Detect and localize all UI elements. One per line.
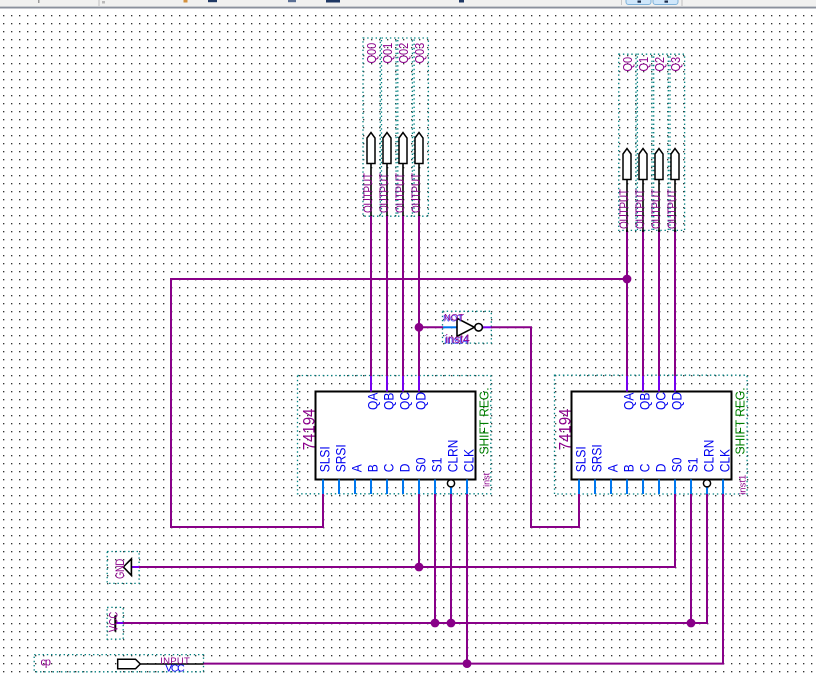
svg-text:QB: QB	[381, 393, 397, 410]
wire U1 SRSI stub	[338, 480, 340, 495]
wire U1 B stub	[370, 480, 372, 495]
svg-text:inst: inst	[482, 472, 492, 487]
svg-text:QB: QB	[637, 393, 653, 410]
wire VCC net	[123, 494, 707, 623]
wire U1.CLK to CLK net	[466, 494, 468, 664]
svg-text:74194: 74194	[301, 408, 319, 450]
node GND selection box	[107, 552, 139, 584]
node output pin Q2 symbol	[655, 149, 663, 180]
ground GND symbol	[131, 566, 139, 568]
wire U2 A stub	[610, 480, 612, 495]
wire Q02 pin to U1 QC	[402, 216, 404, 376]
wire NOT input selected segment	[443, 326, 457, 328]
node U1 CLRN bubble	[447, 480, 454, 487]
svg-text:NOT: NOT	[444, 313, 464, 324]
svg-text:SRSI: SRSI	[333, 444, 349, 472]
wire U1 QC stub	[402, 376, 404, 392]
node U2 CLRN bubble	[703, 480, 710, 487]
node Q01 output pin selection box	[382, 38, 397, 216]
wire U1 D stub	[402, 480, 404, 495]
svg-text:QA: QA	[365, 392, 381, 410]
svg-text:S1: S1	[685, 458, 701, 473]
wire U2 CLK stub	[722, 480, 724, 495]
node output pin Q0 symbol	[623, 149, 631, 180]
node toolbar	[0, 0, 816, 9]
node NOT selection box	[443, 311, 492, 343]
wire U2.S1 to VCC net	[690, 494, 692, 623]
node junction (451,623)	[447, 619, 456, 628]
node Q00 output pin selection box	[363, 38, 380, 216]
svg-text:S0: S0	[669, 458, 685, 473]
svg-text:OUTPUT: OUTPUT	[395, 173, 408, 213]
wire Q00 pin to U1 QA	[370, 216, 372, 376]
svg-text:OUTPUT: OUTPUT	[651, 189, 664, 229]
svg-text:CLK: CLK	[461, 449, 477, 473]
wire U1.S1 to VCC net	[434, 494, 436, 623]
svg-text:inst1: inst1	[738, 475, 749, 495]
wire U1.S0 to GND net	[418, 494, 420, 567]
wire Q01 pin to U1 QB	[386, 216, 388, 376]
svg-text:OUTPUT: OUTPUT	[411, 173, 424, 213]
svg-text:OUTPUT: OUTPUT	[667, 189, 680, 229]
svg-text:QC: QC	[653, 392, 669, 410]
svg-text:OUTPUT: OUTPUT	[635, 189, 648, 229]
svg-text:S0: S0	[413, 458, 429, 473]
node U2 selection box	[555, 375, 748, 494]
svg-text:SLSI: SLSI	[573, 446, 589, 472]
svg-text:QD: QD	[413, 392, 429, 410]
wire U2 SLSI stub	[578, 480, 580, 495]
wire U1 QD stub	[418, 376, 420, 392]
node junction (467,663.6)	[463, 659, 472, 668]
svg-text:D: D	[653, 464, 669, 473]
wire U1 S0 stub	[418, 480, 420, 495]
svg-text:QC: QC	[397, 392, 413, 410]
node Q03 output pin selection box	[414, 38, 428, 216]
svg-text:QA: QA	[621, 392, 637, 410]
wire U1 SLSI stub	[322, 480, 324, 495]
svg-text:S1: S1	[429, 458, 445, 473]
wire U2 SRSI stub	[594, 480, 596, 495]
wire cp CLK net	[204, 494, 724, 664]
svg-text:CLRN: CLRN	[445, 440, 461, 473]
wire NOT output to U2.SLSI	[491, 327, 579, 527]
node Q3 output pin selection box	[670, 54, 685, 230]
svg-text:D: D	[397, 464, 413, 473]
node Q2 output pin selection box	[654, 54, 669, 230]
wire U1.CLRN to VCC net	[450, 494, 452, 623]
wire U2.QA feedback to U1.SLSI	[171, 279, 627, 527]
svg-text:Q0: Q0	[620, 57, 635, 72]
node U1 74194 shift register body	[316, 392, 476, 480]
node output pin Q02 symbol	[399, 133, 407, 164]
wire U1 QA stub	[370, 376, 372, 392]
wire Q03 pin to U1 QD	[418, 216, 420, 376]
node junction (419,327.3)	[415, 323, 424, 332]
wire U2 D stub	[658, 480, 660, 495]
node output pin Q01 symbol	[383, 133, 391, 164]
svg-text:Q1: Q1	[636, 57, 651, 72]
svg-text:A: A	[349, 464, 365, 472]
power VCC symbol	[115, 622, 123, 624]
wire U1 CLK stub	[466, 480, 468, 495]
node junction (691,623)	[687, 619, 696, 628]
wire Q2 pin to U2 QC	[658, 230, 660, 376]
svg-text:inst4: inst4	[446, 334, 471, 346]
svg-text:C: C	[637, 464, 653, 473]
node output pin Q03 symbol	[415, 133, 423, 164]
svg-text:Q3: Q3	[668, 57, 683, 72]
op-amp NOT gate inst4 triangle	[457, 318, 474, 336]
wire U2 CLRN stub	[706, 488, 708, 495]
wire U2 S1 stub	[690, 480, 692, 495]
svg-text:SRSI: SRSI	[589, 444, 605, 472]
wire U1 S1 stub	[434, 480, 436, 495]
node U2 74194 shift register body	[572, 392, 732, 480]
svg-text:SHIFT REG.: SHIFT REG.	[477, 387, 492, 454]
wire U2 QC stub	[658, 376, 660, 392]
svg-text:VCC: VCC	[108, 611, 121, 632]
wire U1 QB stub	[386, 376, 388, 392]
wire Q1 pin to U2 QB	[642, 230, 644, 376]
node junction (419,567)	[415, 563, 424, 572]
svg-text:GND: GND	[114, 558, 127, 579]
wire Q0 pin to U2 QA	[626, 230, 628, 376]
node cp selection box	[34, 655, 203, 672]
svg-text:Q02: Q02	[396, 43, 411, 64]
svg-text:C: C	[381, 464, 397, 473]
wire U2 B stub	[626, 480, 628, 495]
node Q1 output pin selection box	[637, 54, 652, 230]
node input pin cp symbol	[118, 659, 141, 669]
svg-text:SLSI: SLSI	[317, 446, 333, 472]
wire U1 CLRN stub	[450, 488, 452, 495]
svg-text:Q00: Q00	[364, 43, 379, 64]
svg-text:B: B	[365, 464, 381, 472]
node U1 selection box	[298, 376, 491, 494]
svg-text:cp: cp	[41, 657, 52, 669]
svg-text:Q03: Q03	[412, 43, 427, 64]
svg-text:74194: 74194	[557, 408, 575, 450]
node output pin Q1 symbol	[639, 149, 647, 180]
wire U2 QD stub	[674, 376, 676, 392]
node junction (435,623)	[431, 619, 440, 628]
svg-text:A: A	[605, 464, 621, 472]
node Q0 output pin selection box	[619, 54, 636, 230]
wire U2 C stub	[642, 480, 644, 495]
wire U2 S0 stub	[674, 480, 676, 495]
svg-text:SHIFT REG.: SHIFT REG.	[733, 387, 748, 454]
node junction (627,279)	[623, 275, 632, 284]
svg-text:CLRN: CLRN	[701, 440, 717, 473]
svg-text:OUTPUT: OUTPUT	[379, 173, 392, 213]
wire U2 QB stub	[642, 376, 644, 392]
node NOT bubble	[475, 324, 483, 332]
wire U1 A stub	[354, 480, 356, 495]
node VCC selection box	[107, 607, 123, 639]
wire Q3 pin to U2 QD	[674, 230, 676, 376]
wire QD node to NOT input	[419, 326, 443, 328]
svg-text:Q2: Q2	[652, 57, 667, 72]
svg-text:B: B	[621, 464, 637, 472]
node output pin Q3 symbol	[671, 149, 679, 180]
wire U1 C stub	[386, 480, 388, 495]
svg-text:CLK: CLK	[717, 449, 733, 473]
svg-text:QD: QD	[669, 392, 685, 410]
svg-text:VCC: VCC	[165, 663, 185, 675]
wire NOT output selected segment	[482, 326, 491, 328]
svg-text:Q01: Q01	[380, 43, 395, 64]
node Q02 output pin selection box	[398, 38, 413, 216]
svg-text:OUTPUT: OUTPUT	[363, 173, 376, 213]
wire U2 QA stub	[626, 376, 628, 392]
wire GND net	[139, 494, 675, 567]
svg-text:OUTPUT: OUTPUT	[619, 189, 632, 229]
node output pin Q00 symbol	[367, 133, 375, 164]
